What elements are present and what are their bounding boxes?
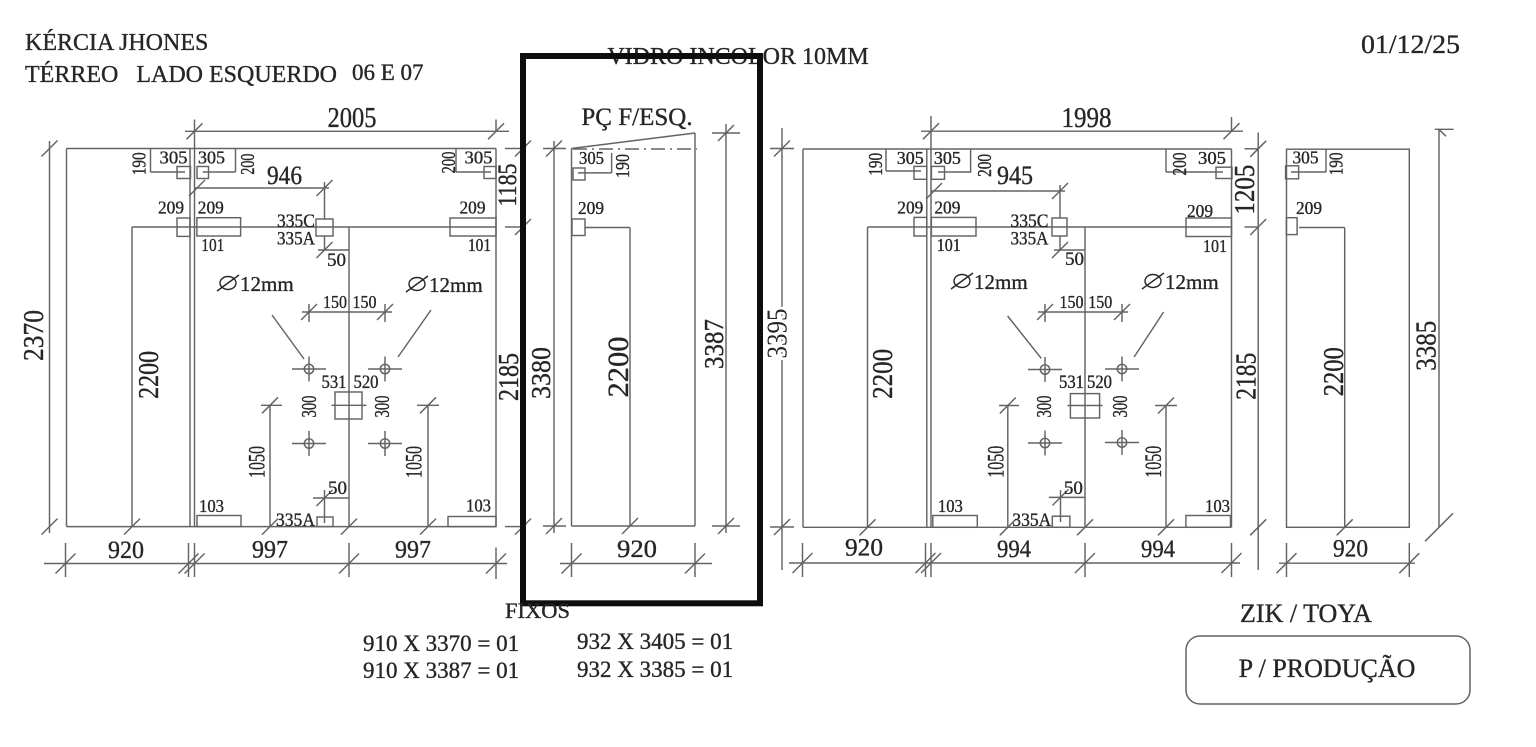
dim 945 text [997,161,1033,190]
dim 3385 line [1425,129,1454,541]
dim 945 line [926,183,1068,199]
svg-text:103: 103 [466,496,491,516]
lock box [335,392,362,419]
fitting 103 ra-left [933,516,978,528]
svg-text:200: 200 [974,154,996,177]
dim 200 top-left text [237,154,259,175]
bottom dim line right assembly [789,562,1240,564]
label 12mm left [217,272,294,296]
dim 190 right-assembly [886,149,921,171]
label 335A mid ra [1011,229,1049,250]
dim 190 far-right [1291,149,1326,172]
svg-text:305: 305 [1293,148,1319,168]
svg-text:910 X 3387 = 01: 910 X 3387 = 01 [363,658,519,683]
fitting 209 square mid [572,219,585,236]
left fixed panel outline [67,149,497,527]
fitting 209/101 long right [450,218,496,236]
label PC F/ESQ [581,104,692,131]
label 335A bottom [276,510,315,531]
dim 150 text [323,292,377,312]
leader ra-right [1134,312,1164,357]
svg-text:150: 150 [323,292,347,312]
hole ra bottom-left [1028,431,1062,456]
fitting 335C square ra [1052,218,1067,236]
svg-text:101: 101 [937,235,961,255]
svg-text:305: 305 [579,148,604,168]
svg-text:209: 209 [198,197,224,217]
mid 209 stub line [585,227,630,229]
fitting 209 small left [177,218,190,236]
fitting 209/101 long ra [931,217,976,236]
svg-text:209: 209 [578,198,604,218]
dim 190 mid lines [578,153,612,173]
fitting 209 square far-right [1286,218,1297,235]
dim 920 far-right text [1333,536,1368,563]
right door leaf left edge [930,149,932,527]
dim 190 top-left [151,149,186,173]
far-right panel outline [1287,149,1410,527]
svg-text:531: 531 [322,372,347,393]
svg-text:300: 300 [370,396,394,418]
fitting 305 squares top-left [177,167,209,179]
svg-text:2200: 2200 [868,349,899,399]
dim 997 text 1 [252,537,288,564]
svg-text:01/12/25: 01/12/25 [1361,30,1460,59]
dim 997 text 2 [395,537,431,564]
thick selection box [523,56,760,603]
svg-text:209: 209 [1187,201,1213,221]
svg-text:190: 190 [1326,152,1348,175]
svg-text:531: 531 [1059,372,1084,393]
fitting 305 square far-right [1286,166,1299,179]
dim 946 line [189,180,333,196]
svg-text:P / PRODUÇÃO: P / PRODUÇÃO [1239,654,1416,683]
dim 3385 text [1412,321,1443,371]
dim 2005 text [328,103,377,134]
dim 2185 left text [494,353,525,401]
dim 920 text middle [617,536,657,563]
fitting 209 small ra [914,217,927,236]
dim 1050 right [417,397,439,534]
label FIXOS [505,598,570,623]
svg-text:ZIK / TOYA: ZIK / TOYA [1240,599,1372,628]
leader right [398,310,431,357]
fitting 335A bottom ra [1052,516,1070,527]
svg-text:200: 200 [1169,153,1191,176]
fitting 209/101 long ra-right [1186,218,1232,237]
svg-text:103: 103 [199,496,224,516]
svg-text:209: 209 [158,197,184,217]
svg-text:910 X 3370 = 01: 910 X 3370 = 01 [363,631,519,656]
label 305 mid [579,148,604,168]
dim 1998 line [921,123,1243,139]
fitting 103 left [197,516,241,527]
label 520 [354,372,379,393]
dim 300 ra-right text [1108,396,1132,418]
svg-text:FIXOS: FIXOS [505,598,570,623]
dim 2200 left line [124,227,140,535]
hole top-right [368,357,402,382]
label 103 ra-right [1205,496,1230,516]
svg-text:932 X 3405 = 01: 932 X 3405 = 01 [577,629,733,654]
svg-text:305: 305 [934,148,961,168]
label 305 top-right [465,148,493,168]
dim 50 bottom ra [1049,489,1085,522]
fitting 103 ra-right [1186,516,1231,528]
dim 1205 line [1250,133,1266,571]
svg-text:305: 305 [160,148,188,168]
dim 50 top text [327,250,346,271]
label 101 ra-right [1203,236,1227,256]
svg-text:12mm: 12mm [240,272,294,296]
svg-text:2370: 2370 [19,310,50,361]
label 305 far-right [1293,148,1319,168]
dim 2200 right-fixed line [860,227,876,535]
dim 1050 ra-right text [1141,446,1166,478]
left mid rail line [132,219,531,235]
svg-text:TÉRREO LADO ESQUERDO: TÉRREO LADO ESQUERDO [25,62,337,88]
svg-text:190: 190 [612,154,634,178]
svg-text:1050: 1050 [1141,446,1166,478]
right fixed panel right edge [926,149,928,527]
label 305 left [160,148,188,168]
fitting 103 right [448,517,496,527]
dim 3380 text [526,347,556,399]
svg-text:KÉRCIA JHONES: KÉRCIA JHONES [25,30,208,56]
svg-text:103: 103 [938,496,963,516]
label 12mm ra-right [1142,270,1219,294]
svg-text:1050: 1050 [402,446,427,478]
dim 150 line [301,304,393,322]
svg-text:335A: 335A [1011,229,1049,250]
svg-text:PÇ F/ESQ.: PÇ F/ESQ. [581,104,692,131]
svg-text:305: 305 [198,148,225,168]
dim 190 far-right text [1326,152,1348,175]
label 335A bottom ra [1012,510,1051,531]
svg-text:200: 200 [438,152,460,174]
dim 190 right-assembly text [865,153,887,176]
lock box ra [1070,394,1099,418]
production box [1186,636,1470,704]
svg-text:300: 300 [1032,396,1056,418]
right fixed panel outline [803,149,1232,527]
svg-text:2200: 2200 [602,337,635,398]
svg-text:1185: 1185 [493,164,522,207]
svg-text:200: 200 [237,154,259,175]
dim 3387 text [699,319,729,369]
svg-text:3387: 3387 [699,319,729,369]
right top stub to dim [1245,141,1267,157]
title line 1: client name [25,30,208,56]
svg-text:920: 920 [108,537,144,564]
dim 1050 ra-left text [984,446,1009,478]
label 305 ra-left [897,148,924,168]
dim 200 ra-right [1166,149,1223,172]
svg-text:2005: 2005 [328,103,377,134]
dim 50 top [317,242,350,258]
svg-text:101: 101 [1203,236,1227,256]
label 103 ra-left [938,496,963,516]
svg-text:103: 103 [1205,496,1230,516]
hole top-left [292,357,326,382]
right mid rail line [868,219,1267,235]
svg-text:305: 305 [465,148,493,168]
dim 1050 left [261,397,282,534]
label 209 far-right [1296,198,1322,218]
left top stub to hidden dim [505,141,531,157]
svg-text:3385: 3385 [1412,321,1443,371]
tapered fixed panel [572,133,696,526]
label 12mm right [406,273,483,297]
dim 300 left text [297,396,321,418]
svg-text:997: 997 [395,537,431,564]
dim 300 right text [370,396,394,418]
svg-text:50: 50 [327,250,346,271]
svg-text:920: 920 [1333,536,1368,563]
label 335C ra [1011,211,1049,232]
dim 946 text [267,161,302,190]
svg-text:2200: 2200 [1319,347,1350,396]
dim 200 ra-right text [1169,153,1191,176]
svg-text:12mm: 12mm [1165,270,1219,294]
dim 50 bottom ra text [1064,478,1083,499]
dim 2370 text [19,310,50,361]
dim 50 bottom text [328,478,347,499]
lock box ra center line [1068,405,1103,407]
left door leaf left edge [194,149,196,527]
svg-text:300: 300 [297,396,321,418]
svg-text:06 E 07: 06 E 07 [352,60,424,85]
fitting 335A bottom [317,517,333,527]
dim 200 top-right [456,149,491,173]
svg-text:101: 101 [468,235,491,255]
svg-text:209: 209 [897,197,923,217]
svg-text:150: 150 [1060,292,1084,312]
dim 50 top ra [1052,242,1085,258]
label 209 fixed-side [158,197,184,217]
svg-text:50: 50 [1064,478,1083,499]
dim 994 text 2 [1141,536,1175,563]
dim 50 bottom [313,490,349,523]
label 103 right [466,496,491,516]
label 531 ra [1059,372,1084,393]
fitting 335C square [316,219,333,236]
dim 200 top-right text [438,152,460,174]
svg-text:520: 520 [1087,372,1112,393]
svg-text:50: 50 [328,478,347,499]
label 335C [277,211,315,232]
dim 3395 line [770,128,794,570]
far-right inner dim 2200 [1299,228,1353,536]
svg-text:335A: 335A [276,510,315,531]
label 305 ra-far-right [1198,148,1226,168]
fitting 305 square top-right [484,167,496,179]
date top right [1361,30,1460,59]
right door center gap line [1077,227,1093,535]
dim 1185 text [493,164,522,207]
dim 190 top-left text [129,152,151,175]
dim 1050 left text [245,446,270,478]
label 531 [322,372,347,393]
dim 1050 ra-left [999,398,1019,536]
svg-text:150: 150 [1088,292,1112,312]
svg-text:520: 520 [354,372,379,393]
cutlist 910x3387 [363,658,519,683]
label 209 ra-far-right [1187,201,1213,221]
left fixed panel right edge [189,149,191,527]
dim 994 text 1 [997,536,1031,563]
svg-text:946: 946 [267,161,302,190]
hole ra bottom-right [1105,430,1139,455]
dim 1205 text [1230,165,1261,215]
dim 2200 mid text [602,337,635,398]
svg-text:150: 150 [353,292,377,312]
label 12mm ra-left [951,270,1028,294]
svg-text:994: 994 [1141,536,1175,563]
dim 3395 text [763,309,794,359]
svg-text:50: 50 [1065,249,1084,270]
label 101 left [201,235,224,255]
label ZIK TOYA [1240,599,1372,628]
label 209 door-side [198,197,224,217]
dim 200 top-left [203,149,236,173]
label 305 right [198,148,225,168]
title line 2: location [25,60,424,88]
dim 1050 ra-right [1155,398,1177,536]
svg-text:305: 305 [1198,148,1226,168]
dim 190 mid text [612,154,634,178]
bottom dim middle [560,543,712,577]
lock box center line [332,404,367,406]
dim 200 right-assembly text [974,154,996,177]
left door right edge [495,149,497,527]
dash-dot reference line [573,148,697,150]
dim 2370 line [42,141,58,535]
label 101 right [468,235,491,255]
bottom dim ticks [56,554,507,574]
svg-text:3395: 3395 [763,309,794,359]
svg-text:2200: 2200 [134,351,165,399]
dim 920 text ra [845,535,883,562]
svg-text:997: 997 [252,537,288,564]
svg-text:1050: 1050 [984,446,1009,478]
svg-text:101: 101 [201,235,224,255]
dim 3387 line [712,124,740,534]
bottom dim line left assembly [44,563,507,565]
svg-text:3380: 3380 [526,347,556,399]
label 101 ra [937,235,961,255]
label 520 ra [1087,372,1112,393]
label 209 ra-right [934,197,960,217]
dim 2200 mid line [622,228,638,535]
dim 2200 far-right text [1319,347,1350,396]
svg-text:190: 190 [865,153,887,176]
svg-text:209: 209 [934,197,960,217]
svg-text:920: 920 [617,536,657,563]
dim 3380 line [543,141,566,535]
left bottom stub to hidden dim [505,519,531,535]
right door right edge [1231,149,1233,527]
svg-text:12mm: 12mm [974,270,1028,294]
fitting 305 square mid [573,168,585,180]
bottom dim ext lines [66,543,497,579]
label 209 mid [578,198,604,218]
hole ra top-left [1028,357,1062,382]
dim 300 ra-left text [1032,396,1056,418]
svg-text:1998: 1998 [1062,103,1112,134]
bottom dim ext lines ra [803,543,1232,577]
label 209 ra-left [897,197,923,217]
label P PRODUCAO [1239,654,1416,683]
line below 335C [324,182,326,250]
dim 1998 ext lines [931,116,1232,149]
fitting 209/101 long left [197,218,241,236]
label 335A mid [277,229,315,250]
svg-text:920: 920 [845,535,883,562]
hole bottom-right [368,431,402,456]
label 103 left [199,496,224,516]
dim 50 top ra text [1065,249,1084,270]
svg-text:335A: 335A [277,229,315,250]
fitting 305 square ra-right [1216,167,1232,178]
dim 2185 right text [1232,353,1263,400]
dim 920 text left [108,537,144,564]
label 209 right [460,198,486,218]
bottom dim ticks ra [793,553,1242,573]
hole bottom-left [292,431,326,456]
left door center gap line [341,227,357,535]
svg-text:300: 300 [1108,396,1132,418]
cutlist 932x3405 [577,629,733,654]
svg-text:12mm: 12mm [429,273,483,297]
line below 335C ra [1059,185,1061,250]
svg-text:209: 209 [1296,198,1322,218]
dim 1998 text [1062,103,1112,134]
fitting 305 squares right-assembly [914,166,945,179]
dim 150 ra line [1037,304,1130,322]
dim 2005 line [185,123,509,139]
glass spec label [607,44,868,70]
svg-text:190: 190 [129,152,151,175]
dim 2005 ext lines [195,120,497,149]
svg-text:1050: 1050 [245,446,270,478]
svg-text:994: 994 [997,536,1031,563]
dim 200 right-assembly [938,149,971,173]
svg-text:932 X 3385 = 01: 932 X 3385 = 01 [577,657,733,682]
bottom dim far-right [1277,543,1420,577]
dim 2200 right-fixed text [868,349,899,399]
svg-text:2185: 2185 [1232,353,1263,400]
leader left [272,315,304,359]
svg-text:945: 945 [997,161,1033,190]
svg-text:305: 305 [897,148,924,168]
dim 150 ra text [1060,292,1113,312]
svg-text:1205: 1205 [1230,165,1261,215]
svg-text:335A: 335A [1012,510,1051,531]
hole ra top-right [1105,357,1139,382]
cutlist 932x3385 [577,657,733,682]
dim 2200 left text [134,351,165,399]
leader ra-left [1008,316,1042,358]
svg-text:209: 209 [460,198,486,218]
dim 1050 right text [402,446,427,478]
label 305 ra-right [934,148,961,168]
cutlist 910x3370 [363,631,519,656]
